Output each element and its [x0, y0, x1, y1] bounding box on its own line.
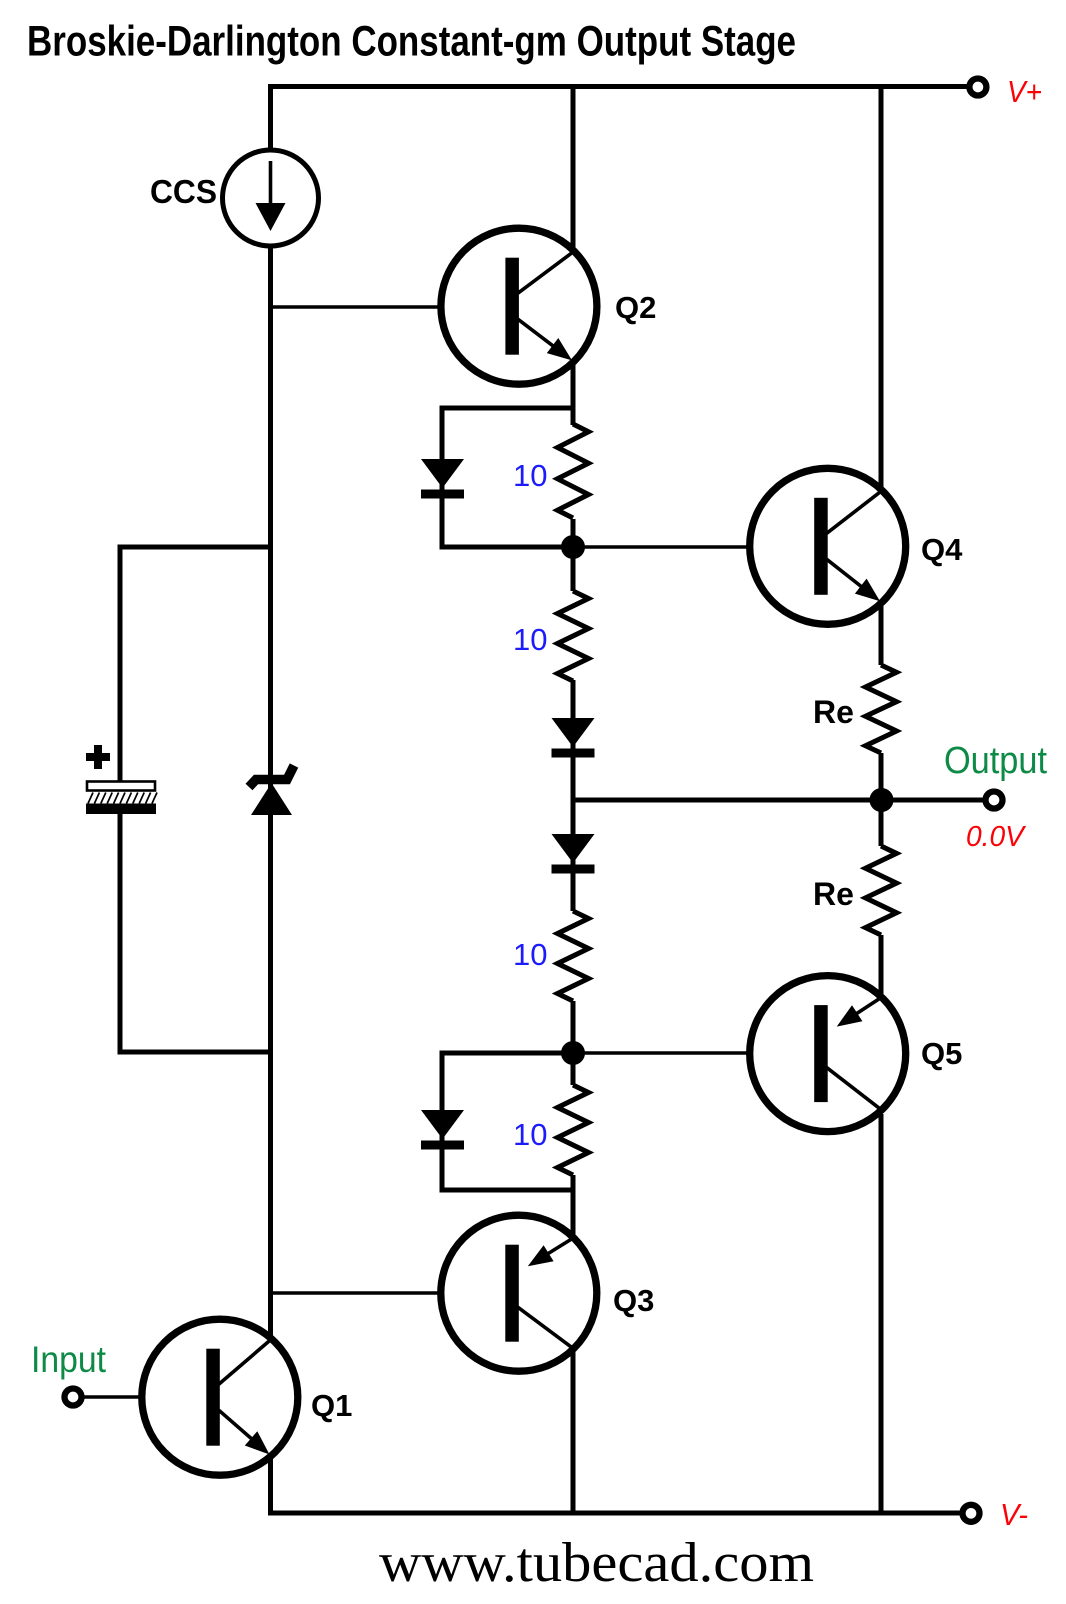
wire middle column R4 to Q3	[571, 1175, 576, 1245]
wire Q2 collector to top rail	[571, 84, 576, 258]
diode D1	[421, 459, 464, 488]
svg-text:0.0V: 0.0V	[966, 821, 1027, 853]
wire left rail upper	[268, 84, 273, 152]
wire D4 through	[440, 1051, 445, 1193]
capacitor C1 polarized	[86, 753, 110, 761]
svg-text:10: 10	[513, 622, 547, 657]
terminal Input	[65, 1389, 82, 1406]
svg-text:Q5: Q5	[921, 1036, 962, 1071]
diode D4	[421, 1110, 464, 1139]
terminal Output	[986, 792, 1003, 809]
svg-text:Re: Re	[813, 876, 854, 912]
wire middle column R3 to R4	[571, 1001, 576, 1085]
transistor Q5	[750, 976, 906, 1132]
resistor Re upper	[866, 665, 897, 753]
wire node A to Q4 base	[573, 545, 819, 549]
wire Q1 base	[82, 1395, 209, 1399]
wire left rail main	[268, 244, 273, 1340]
wire cap branch left lower	[118, 812, 123, 1055]
svg-text:Q1: Q1	[311, 1388, 352, 1423]
wire Q3 base	[268, 1291, 510, 1295]
wire D1 through	[440, 406, 445, 550]
svg-text:www.tubecad.com: www.tubecad.com	[379, 1532, 814, 1594]
wire node B to Q5 base	[573, 1051, 819, 1055]
resistor R4 10	[558, 1085, 589, 1175]
wire Q3 collector to bottom rail	[571, 1342, 576, 1516]
svg-text:Broskie-Darlington Constant-gm: Broskie-Darlington Constant-gm Output St…	[27, 19, 796, 66]
wire bottom V- rail	[268, 1511, 960, 1516]
current source CCS	[223, 150, 319, 246]
wire cap branch top	[120, 545, 268, 550]
terminal V+	[969, 79, 986, 96]
wire Q5 collector to bottom rail	[879, 1114, 884, 1516]
transistor Q2	[441, 228, 597, 384]
svg-text:CCS: CCS	[150, 173, 217, 210]
svg-text:Q4: Q4	[921, 532, 963, 567]
svg-text:Q3: Q3	[613, 1283, 654, 1318]
wire Q2 emitter down	[571, 352, 576, 425]
svg-text:Input: Input	[31, 1339, 107, 1380]
transistor Q4	[750, 468, 906, 624]
node B junction	[561, 1041, 585, 1065]
svg-text:10: 10	[513, 1117, 547, 1152]
node A junction	[561, 535, 585, 559]
wire D4 to node B	[440, 1051, 574, 1056]
resistor R2 10	[558, 591, 589, 681]
svg-text:V-: V-	[1000, 1497, 1028, 1532]
svg-text:Output: Output	[944, 740, 1047, 782]
wire left rail lower	[268, 1449, 273, 1516]
wire Q4 emitter to Re	[879, 594, 884, 665]
zener diode Z1	[251, 783, 292, 815]
svg-text:Re: Re	[813, 694, 854, 730]
svg-text:V+: V+	[1007, 74, 1042, 109]
wire D1 to node A	[440, 545, 574, 550]
wire top V+ rail	[268, 84, 967, 89]
wire right rail top	[879, 84, 884, 495]
wire Re to output node	[879, 753, 884, 846]
wire D4 bottom	[440, 1188, 576, 1193]
resistor R1 10	[558, 424, 589, 518]
wire Q2 base	[268, 305, 510, 309]
svg-text:Q2: Q2	[615, 290, 656, 325]
diode D3	[552, 834, 595, 863]
wire middle column R1 to R2	[571, 519, 576, 591]
wire Re2 to Q5	[879, 935, 884, 996]
diode D2	[552, 718, 595, 747]
wire cap branch left upper	[118, 545, 123, 783]
output node junction	[870, 788, 894, 812]
resistor R3 10	[558, 911, 589, 1001]
wire middle column R2 to R3	[571, 680, 576, 911]
svg-text:10: 10	[513, 937, 547, 972]
wire cap branch bottom	[120, 1050, 268, 1055]
wire output horizontal	[573, 798, 983, 803]
transistor Q3	[441, 1215, 597, 1371]
resistor Re lower	[866, 846, 897, 935]
terminal V-	[963, 1505, 980, 1522]
wire D1 top	[442, 406, 576, 411]
svg-text:10: 10	[513, 458, 547, 493]
transistor Q1	[142, 1319, 298, 1475]
